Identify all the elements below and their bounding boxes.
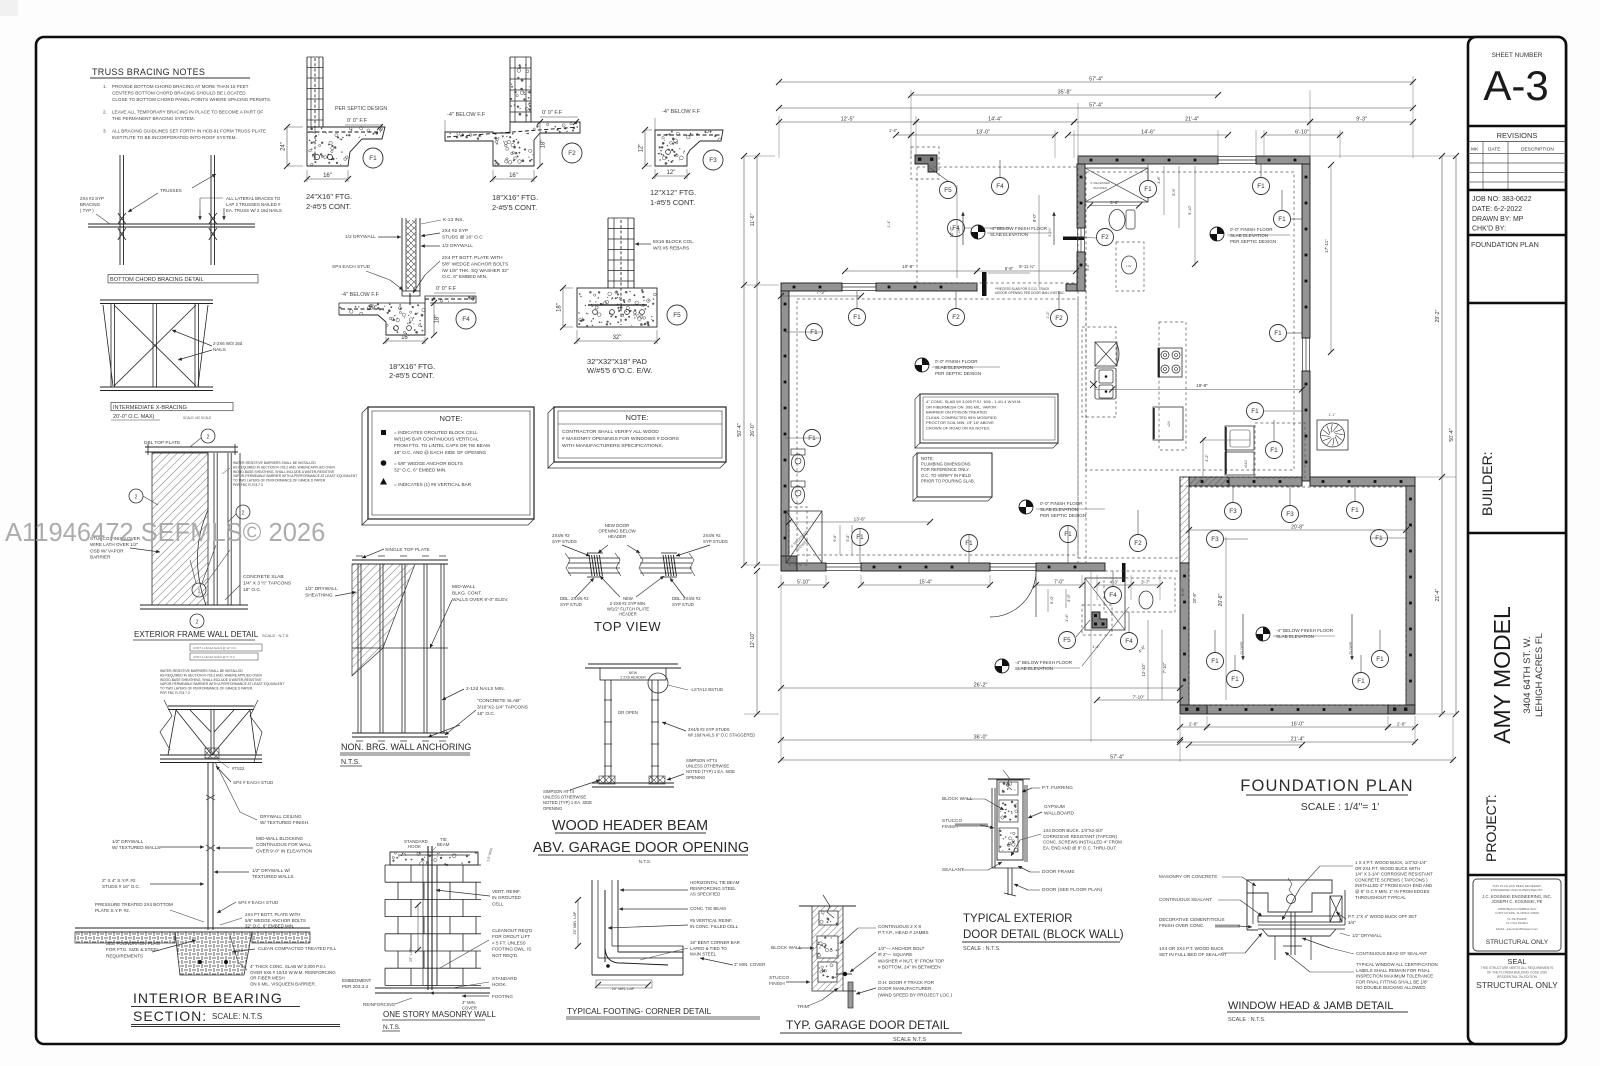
svg-text:F3: F3 — [1229, 508, 1237, 515]
svg-text:13'-8": 13'-8" — [854, 517, 866, 522]
svg-text:TRIM: TRIM — [797, 1004, 809, 1010]
svg-text:12'-10": 12'-10" — [750, 632, 756, 648]
plan dashed slab edges — [1086, 172, 1294, 470]
svg-text:48" O.C. AND @ EACH SIDE OF OP: 48" O.C. AND @ EACH SIDE OF OPENING — [394, 450, 486, 455]
svg-text:SLAB ELEVATION: SLAB ELEVATION — [1015, 666, 1053, 671]
svg-text:DRAWN BY: MP: DRAWN BY: MP — [1472, 216, 1524, 223]
svg-text:F4: F4 — [462, 316, 470, 323]
svg-text:2X4/6 #2: 2X4/6 #2 — [552, 533, 570, 538]
svg-text:3'-8": 3'-8" — [1157, 176, 1161, 184]
svg-text:MAIN STEEL: MAIN STEEL — [690, 952, 717, 957]
svg-text:CORROSIVE RESISTANT (TAPCON): CORROSIVE RESISTANT (TAPCON) — [1043, 834, 1117, 839]
svg-text:O.H. DOOR # TRACK FOR: O.H. DOOR # TRACK FOR — [878, 980, 935, 985]
svg-text:2X4/6 #2 SYP STUDS: 2X4/6 #2 SYP STUDS — [688, 727, 730, 732]
svg-text:21'-4": 21'-4" — [1435, 588, 1441, 601]
svg-text:3" MIN. COVER: 3" MIN. COVER — [734, 962, 765, 967]
svg-text:20'-8": 20'-8" — [1291, 525, 1304, 531]
svg-text:BRACING: BRACING — [80, 202, 101, 207]
svg-text:19'-8": 19'-8" — [1196, 383, 1208, 388]
svg-text:REINFORCING: REINFORCING — [363, 1002, 396, 1007]
svg-text:16" O.C.: 16" O.C. — [243, 587, 261, 593]
svg-text:32"X32"X18" PAD: 32"X32"X18" PAD — [587, 357, 648, 366]
svg-text:9'-6": 9'-6" — [833, 534, 837, 542]
svg-text:UNLESS OTHERWISE: UNLESS OTHERWISE — [686, 764, 729, 769]
svg-text:FOR FTG. SIZE & STEEL: FOR FTG. SIZE & STEEL — [106, 947, 160, 952]
svg-text:PER SEPTIC DESIGN: PER SEPTIC DESIGN — [1040, 513, 1086, 518]
svg-text:THROUGHOUT TYPICAL: THROUGHOUT TYPICAL — [1355, 895, 1406, 900]
svg-text:HORIZONTAL TIE BEAM: HORIZONTAL TIE BEAM — [690, 880, 740, 885]
footing detail F4 — [401, 218, 403, 291]
svg-text:DESCRIPTION: DESCRIPTION — [1521, 147, 1554, 153]
svg-text:CONTRACTOR SHALL VERIFY ALL WO: CONTRACTOR SHALL VERIFY ALL WOOD — [562, 429, 659, 435]
svg-text:SYP STUD: SYP STUD — [672, 602, 694, 607]
svg-text:P.T.Y.P., HEAD # JAMBS: P.T.Y.P., HEAD # JAMBS — [878, 930, 929, 935]
svg-text:SCALE: N.T.S: SCALE: N.T.S — [212, 1012, 262, 1021]
svg-text:2: 2 — [207, 435, 210, 441]
svg-text:5'-0": 5'-0" — [1180, 587, 1185, 596]
svg-text:EMAIL: jckosinski35(at)aol.com: EMAIL: jckosinski35(at)aol.com — [1496, 927, 1538, 931]
svg-text:THE PERMANENT BRACING SYSTEM.: THE PERMANENT BRACING SYSTEM. — [112, 116, 195, 121]
svg-text:SIMPSON HTT4: SIMPSON HTT4 — [543, 789, 575, 794]
svg-text:AS REQUIRED IN SECTION R-703.2: AS REQUIRED IN SECTION R-703.2 AND, WHER… — [160, 673, 262, 677]
svg-text:SP4 # EACH STUD: SP4 # EACH STUD — [238, 900, 279, 905]
svg-text:1/2" DRYWALL: 1/2" DRYWALL — [112, 839, 144, 844]
svg-text:50'-4": 50'-4" — [1449, 428, 1455, 441]
svg-text:FINISH OVER CONC.: FINISH OVER CONC. — [1159, 923, 1204, 928]
svg-text:OSB W/ VAPOR: OSB W/ VAPOR — [90, 548, 124, 553]
svg-text:-4" BELOW FINISH FLOOR: -4" BELOW FINISH FLOOR — [1276, 628, 1334, 633]
svg-text:CROWN OF ROAD OR AS NOTED.: CROWN OF ROAD OR AS NOTED. — [926, 426, 990, 431]
svg-text:4'-2": 4'-2" — [1205, 454, 1209, 462]
svg-text:16'-0": 16'-0" — [1291, 722, 1304, 728]
one story masonry wall — [390, 852, 478, 865]
svg-text:W/ 16d NAILS 6" O.C STAGGERED: W/ 16d NAILS 6" O.C STAGGERED — [688, 733, 755, 738]
svg-text:10'-8": 10'-8" — [902, 264, 914, 269]
svg-text:FOUNDATION PLAN: FOUNDATION PLAN — [1240, 777, 1414, 795]
svg-text:DBL. 2X4/6 #2: DBL. 2X4/6 #2 — [672, 596, 701, 601]
svg-text:4'-3": 4'-3" — [1110, 580, 1119, 585]
svg-text:O.C. 6" EMBED MIN.: O.C. 6" EMBED MIN. — [442, 274, 487, 280]
svg-text:1.: 1. — [103, 84, 107, 89]
svg-text:#5 VERTICAL REINF.: #5 VERTICAL REINF. — [690, 918, 732, 923]
svg-text:CHK'D BY:: CHK'D BY: — [1472, 226, 1506, 233]
svg-text:57'-4": 57'-4" — [1089, 77, 1103, 83]
svg-text:1’-1": 1’-1" — [1328, 413, 1336, 417]
svg-text:50'-4": 50'-4" — [737, 423, 743, 436]
svg-text:26'-2": 26'-2" — [974, 683, 988, 689]
plan bottom dimension lines — [781, 584, 826, 586]
svg-text:57'-4": 57'-4" — [1110, 755, 1124, 761]
svg-text:SCALE N.T.S: SCALE N.T.S — [893, 1037, 926, 1043]
svg-text:F2: F2 — [952, 314, 960, 321]
svg-text:NOTED (TYP) 1 EA. SIDE: NOTED (TYP) 1 EA. SIDE — [543, 800, 592, 805]
svg-text:SYP STUD: SYP STUD — [560, 602, 582, 607]
svg-text:NEW: NEW — [629, 671, 638, 675]
svg-text:TEXTURED WALLS.: TEXTURED WALLS. — [252, 874, 295, 879]
svg-text:SLAB ELEVATION: SLAB ELEVATION — [1230, 233, 1268, 238]
svg-text:WALLS OVER 9'-0" ELEV.: WALLS OVER 9'-0" ELEV. — [452, 597, 508, 603]
svg-text:STUDS # 16" O.C.: STUDS # 16" O.C. — [102, 884, 140, 889]
conc slab note box — [915, 394, 920, 448]
svg-text:CONTINUOUS 2 X 8: CONTINUOUS 2 X 8 — [878, 924, 921, 929]
svg-text:LAV: LAV — [1126, 264, 1131, 268]
svg-text:1'-4": 1'-4" — [887, 220, 891, 228]
note box 2 — [548, 407, 554, 468]
svg-text:CLOSE TO BOTTOM CHORD PANEL PO: CLOSE TO BOTTOM CHORD PANEL POINTS WHERE… — [112, 97, 271, 102]
svg-text:F4: F4 — [996, 183, 1004, 190]
svg-text:P.T. 1"X 4" WOOD BUCK OFF SET: P.T. 1"X 4" WOOD BUCK OFF SET — [1348, 914, 1417, 919]
svg-text:-LSTA12 BSTUD: -LSTA12 BSTUD — [690, 687, 723, 692]
svg-text:1X4 DOOR BUCK. 1/4"X2-3/4": 1X4 DOOR BUCK. 1/4"X2-3/4" — [1043, 828, 1104, 833]
svg-text:PROVIDE BOTTOM CHORD BRACING A: PROVIDE BOTTOM CHORD BRACING AT MORE THA… — [112, 84, 249, 89]
svg-text:NOTE:: NOTE: — [626, 413, 649, 422]
svg-text:GYPSUM: GYPSUM — [1044, 804, 1065, 810]
svg-text:1X4 OR 2X4 P.T. WOOD BUCK: 1X4 OR 2X4 P.T. WOOD BUCK — [1159, 946, 1224, 951]
svg-text:BUILDER:: BUILDER: — [1479, 451, 1495, 516]
svg-text:HEADER: HEADER — [619, 612, 636, 617]
svg-text:F4: F4 — [1109, 592, 1117, 599]
svg-text:F1: F1 — [1251, 408, 1259, 415]
svg-text:STRUCTURAL ONLY: STRUCTURAL ONLY — [1486, 939, 1549, 946]
svg-text:2X4 #2 SYP: 2X4 #2 SYP — [80, 196, 104, 201]
svg-text:CONTINUOUS BEAD OF SEALANT: CONTINUOUS BEAD OF SEALANT — [1356, 951, 1428, 956]
svg-text:INTERMEDIATE X-BRACING: INTERMEDIATE X-BRACING — [113, 405, 187, 411]
svg-text:W/#5'5 6"O.C. E/W.: W/#5'5 6"O.C. E/W. — [587, 366, 652, 375]
svg-text:F1: F1 — [1274, 330, 1282, 337]
svg-text:OR FIBER MESH: OR FIBER MESH — [250, 976, 285, 981]
svg-text:HEADER: HEADER — [608, 534, 626, 539]
svg-text:MID-WALL: MID-WALL — [452, 584, 476, 590]
svg-text:"CONCRETE SLAB": "CONCRETE SLAB" — [477, 698, 521, 704]
svg-text:AMY MODEL: AMY MODEL — [1489, 606, 1515, 744]
svg-text:16": 16" — [323, 173, 332, 179]
svg-text:TYPICAL EXTERIOR: TYPICAL EXTERIOR — [963, 913, 1073, 925]
svg-text:1'-4": 1'-4" — [889, 128, 898, 133]
svg-text:FL COA #34464: FL COA #34464 — [1506, 921, 1528, 925]
svg-text:5'-8": 5'-8" — [846, 534, 850, 542]
svg-text:0' 0" F.F: 0' 0" F.F — [542, 110, 563, 116]
svg-text:F5: F5 — [1063, 637, 1071, 644]
svg-text:WITH MANUFACTURERS SPECIFICATI: WITH MANUFACTURERS SPECIFICATIONS. — [562, 443, 663, 449]
svg-text:0'-0" FINISH FLOOR: 0'-0" FINISH FLOOR — [1040, 501, 1083, 506]
svg-text:W/(1)#5 BAR CONTINUOUS VERTICA: W/(1)#5 BAR CONTINUOUS VERTICAL — [394, 437, 479, 442]
svg-text:PER 203.3.3: PER 203.3.3 — [342, 984, 368, 989]
svg-text:WASHER # NUT, 8" FROM TOP: WASHER # NUT, 8" FROM TOP — [878, 958, 944, 963]
svg-text:PRIOR TO POURING SLAB.: PRIOR TO POURING SLAB. — [921, 478, 975, 483]
svg-text:PER SEPTIC DESIGN: PER SEPTIC DESIGN — [1230, 239, 1276, 244]
svg-text:5'-8": 5'-8" — [1005, 266, 1014, 271]
svg-text:SEAL: SEAL — [1507, 957, 1526, 966]
svg-text:F2: F2 — [1101, 234, 1109, 241]
svg-text:F3: F3 — [1286, 511, 1294, 518]
svg-text:NON. BRG. WALL ANCHORING: NON. BRG. WALL ANCHORING — [341, 742, 471, 752]
svg-text:FORT MYERS, FLORIDA 33908: FORT MYERS, FLORIDA 33908 — [1495, 911, 1539, 915]
svg-text:MASONRY OR CONCRETE: MASONRY OR CONCRETE — [1159, 874, 1217, 879]
svg-text:OR FIBERMESH ON .006 MIL. VAP: OR FIBERMESH ON .006 MIL. VAPOR — [926, 404, 996, 409]
svg-text:W/ TEXTURED FINISH.: W/ TEXTURED FINISH. — [260, 820, 309, 825]
svg-text:OR 2X4 P.T. WOOD BUCK WITH: OR 2X4 P.T. WOOD BUCK WITH — [1355, 866, 1420, 871]
svg-text:F1: F1 — [369, 155, 377, 162]
svg-text:3" MIN.: 3" MIN. — [462, 1000, 476, 1005]
svg-text:5'-8": 5'-8" — [1110, 200, 1119, 205]
svg-text:2X4 #2 SYP: 2X4 #2 SYP — [442, 228, 468, 234]
svg-text:F1: F1 — [1211, 658, 1219, 665]
svg-text:SYP STUDS: SYP STUDS — [552, 539, 577, 544]
svg-text:3'-0⅝": 3'-0⅝" — [1048, 226, 1052, 236]
svg-text:F4: F4 — [1125, 638, 1133, 645]
svg-text:5/8" WEDGE ANCHOR BOLTS: 5/8" WEDGE ANCHOR BOLTS — [442, 261, 508, 267]
svg-text:SCALE : 1/4"= 1': SCALE : 1/4"= 1' — [1301, 801, 1379, 813]
svg-text:F1: F1 — [1376, 656, 1384, 663]
svg-text:9'-3": 9'-3" — [1356, 117, 1367, 123]
typ. garage door detail — [799, 905, 856, 907]
svg-text:AS SPECIFIED: AS SPECIFIED — [690, 892, 720, 897]
svg-text:F1: F1 — [1351, 507, 1359, 514]
svg-text:SCALE : N.T.S.: SCALE : N.T.S. — [262, 633, 289, 638]
svg-text:36'-0": 36'-0" — [974, 735, 988, 741]
svg-text:PLATE S.Y.P. #2.: PLATE S.Y.P. #2. — [95, 908, 130, 913]
svg-text:24": 24" — [281, 142, 287, 151]
svg-text:ABV. GARAGE DOOR OPENING: ABV. GARAGE DOOR OPENING — [533, 840, 749, 856]
svg-text:SCALE: NO SCALE: SCALE: NO SCALE — [183, 416, 211, 420]
svg-text:1/4" X 3-1/4" CORROSIVE RESIST: 1/4" X 3-1/4" CORROSIVE RESISTANT — [1355, 872, 1433, 877]
svg-text:PRESSURE TREATED 2X4 BOTTOM: PRESSURE TREATED 2X4 BOTTOM — [95, 902, 173, 907]
svg-text:JOSEPH C. KOSINSKI, PE: JOSEPH C. KOSINSKI, PE — [1492, 899, 1543, 904]
entry corner column — [1092, 612, 1107, 628]
svg-text:N.T.S.: N.T.S. — [383, 1024, 401, 1031]
svg-text:STUCCO: STUCCO — [942, 818, 963, 824]
svg-text:> 5 FT. UNLESS: > 5 FT. UNLESS — [492, 940, 526, 945]
typical exterior door detail — [988, 778, 1030, 780]
svg-text:1/2 DRYWALL: 1/2 DRYWALL — [345, 234, 376, 240]
svg-text:1: 1 — [198, 589, 201, 595]
svg-text:NOTE:: NOTE: — [440, 414, 463, 423]
svg-text:0'-0" FINISH FLOOR: 0'-0" FINISH FLOOR — [935, 359, 978, 364]
svg-text:F1: F1 — [1144, 186, 1152, 193]
svg-text:7'-0": 7'-0" — [1054, 580, 1064, 586]
svg-text:25" MIN. LAP: 25" MIN. LAP — [612, 987, 635, 991]
footing detail F1 — [306, 57, 308, 127]
svg-text:CLEAN COMPACTED TREATED FILL: CLEAN COMPACTED TREATED FILL — [258, 946, 337, 951]
svg-text:1/4" X 3 ½" TAPCONS: 1/4" X 3 ½" TAPCONS — [243, 580, 291, 587]
svg-text:18": 18" — [541, 140, 547, 149]
svg-text:EA. END AND @ 8" O.C. THRU-OUT: EA. END AND @ 8" O.C. THRU-OUT. — [1043, 845, 1117, 850]
svg-text:20'-0" O.C. MAX): 20'-0" O.C. MAX) — [113, 414, 154, 420]
svg-text:K-13 INS.: K-13 INS. — [443, 217, 464, 223]
svg-text:12"X12" FTG.: 12"X12" FTG. — [650, 188, 696, 197]
svg-text:FOR FINAL FITTING SHALL BE 1/: FOR FINAL FITTING SHALL BE 1/8" — [1356, 979, 1428, 984]
svg-text:LABELS SHALL REMAIN FOR FINAL: LABELS SHALL REMAIN FOR FINAL — [1356, 968, 1431, 973]
svg-text:2-#5'5 CONT.: 2-#5'5 CONT. — [389, 371, 434, 380]
svg-text:TOP VIEW: TOP VIEW — [594, 619, 661, 634]
svg-text:INSTITUTE TO BE INCORPORATED I: INSTITUTE TO BE INCORPORATED INTO ROOF S… — [112, 135, 237, 140]
svg-text:W/3 #5 REBARS: W/3 #5 REBARS — [653, 245, 689, 251]
svg-text:2.: 2. — [103, 109, 107, 114]
svg-text:AS REQUIRED IN SECTION R-703.2: AS REQUIRED IN SECTION R-703.2 AND, WHER… — [233, 465, 335, 469]
svg-text:18": 18" — [557, 303, 563, 312]
svg-text:57'-4": 57'-4" — [1089, 103, 1103, 109]
svg-text:VERT. REINF.: VERT. REINF. — [492, 889, 521, 894]
footing detail F5 — [607, 218, 609, 288]
svg-text:= INDICATES GROUTED BLOCK CELL: = INDICATES GROUTED BLOCK CELL — [394, 430, 478, 435]
svg-text:#TS22: #TS22 — [232, 766, 245, 771]
svg-text:DOOR MANUFACTURER.: DOOR MANUFACTURER. — [878, 986, 933, 991]
svg-text:DR OPEN: DR OPEN — [618, 710, 638, 715]
plan bullseyes and notes — [971, 225, 985, 239]
svg-text:0'-0" FINISH FLOOR: 0'-0" FINISH FLOOR — [1230, 227, 1273, 232]
svg-text:15'-4": 15'-4" — [919, 580, 932, 586]
svg-text:BARRIER ON POISON TREATED: BARRIER ON POISON TREATED — [926, 410, 987, 415]
svg-text:WOOD-BASE SHEATHING, SHALL INC: WOOD-BASE SHEATHING, SHALL INCLUDE A WAT… — [233, 470, 335, 474]
svg-text:12'-10": 12'-10" — [1141, 663, 1146, 677]
svg-text:SHEET NUMBER: SHEET NUMBER — [1492, 52, 1543, 59]
svg-text:REINFORCING STEEL: REINFORCING STEEL — [690, 886, 736, 891]
svg-text:CONC. SCREWS INSTALLED 4" FROM: CONC. SCREWS INSTALLED 4" FROM — [1043, 840, 1122, 845]
svg-text:NOT REQ'D.: NOT REQ'D. — [492, 953, 518, 958]
svg-text:WINDOW HEAD & JAMB DETAIL: WINDOW HEAD & JAMB DETAIL — [1228, 1000, 1393, 1012]
svg-text:F1: F1 — [1357, 678, 1365, 685]
svg-text:SCALE : N.T.S.: SCALE : N.T.S. — [963, 946, 1001, 952]
svg-text:OPENING: OPENING — [686, 775, 705, 780]
svg-text:VAPOR-PERMEABLE BARRIER WITH A: VAPOR-PERMEABLE BARRIER WITH A PERFORMAN… — [233, 474, 357, 478]
svg-text:3'-7": 3'-7" — [1141, 580, 1150, 585]
svg-text:W/ TEXTURED WALLS.: W/ TEXTURED WALLS. — [112, 845, 162, 850]
svg-text:32" O.C. 6" EMBED MIN.: 32" O.C. 6" EMBED MIN. — [245, 924, 294, 929]
svg-text:TYP. GARAGE DOOR DETAIL: TYP. GARAGE DOOR DETAIL — [786, 1018, 950, 1032]
svg-text:25" MIN. LAP: 25" MIN. LAP — [573, 911, 577, 934]
svg-text:/W 1/8" THK. SQ WASHER 32": /W 1/8" THK. SQ WASHER 32" — [442, 268, 509, 274]
svg-text:NOTED (TYP) 1 EA. SIDE: NOTED (TYP) 1 EA. SIDE — [686, 769, 735, 774]
svg-text:CELL: CELL — [492, 901, 504, 906]
svg-text:PER SEPTIC DESIGN: PER SEPTIC DESIGN — [935, 371, 981, 376]
svg-text:-4" BELOW FINISH FLOOR: -4" BELOW FINISH FLOOR — [1015, 660, 1073, 665]
svg-text:STANDARD: STANDARD — [492, 976, 518, 981]
svg-text:CONC. TIE BEAM: CONC. TIE BEAM — [690, 906, 726, 911]
svg-text:TYPICAL WINDOW ALL CERTIFICATI: TYPICAL WINDOW ALL CERTIFICATION — [1356, 962, 1438, 967]
svg-text:7'-10": 7'-10" — [1133, 695, 1145, 700]
svg-text:1'-4": 1'-4" — [1064, 613, 1069, 622]
svg-text:CONCRETE SLAB: CONCRETE SLAB — [243, 574, 284, 580]
svg-text:SET IN FULL BED OF SEALANT: SET IN FULL BED OF SEALANT — [1159, 952, 1227, 957]
svg-text:SINGLE TOP PLATE: SINGLE TOP PLATE — [385, 547, 430, 553]
svg-text:-4" BELOW F.F: -4" BELOW F.F — [447, 112, 486, 118]
svg-text:IN GROUTED: IN GROUTED — [492, 895, 522, 900]
svg-text:TRUSSES: TRUSSES — [160, 188, 182, 193]
svg-text:A-3: A-3 — [1483, 62, 1548, 109]
svg-text:16": 16" — [509, 173, 518, 179]
svg-text:SHOWER: SHOWER — [1093, 186, 1107, 190]
svg-text:2-#5'5 CONT.: 2-#5'5 CONT. — [306, 202, 351, 211]
svg-text:F5: F5 — [944, 187, 952, 194]
svg-text:DBL. 2X4/6 #2: DBL. 2X4/6 #2 — [560, 596, 589, 601]
svg-text:JOIST 1-16d EA NAILS @ 12" O.C: JOIST 1-16d EA NAILS @ 12" O.C. — [193, 646, 237, 650]
svg-text:OPENING BELOW: OPENING BELOW — [598, 529, 636, 534]
svg-text:1/2" DRYWALL: 1/2" DRYWALL — [305, 586, 338, 592]
svg-text:NAILS: NAILS — [213, 347, 226, 352]
svg-text:STUDS @ 16" O.C: STUDS @ 16" O.C — [442, 234, 483, 240]
svg-text:STUCCO: STUCCO — [769, 975, 790, 981]
svg-text:F1: F1 — [853, 314, 861, 321]
svg-text:REQUIREMENTS: REQUIREMENTS — [106, 953, 143, 958]
svg-text:3.: 3. — [103, 128, 107, 133]
svg-text:SP4 # EACH STUD: SP4 # EACH STUD — [233, 780, 274, 785]
svg-text:16" BENT CORNER BAR: 16" BENT CORNER BAR — [690, 940, 740, 945]
svg-text:DBL TOP PLATE: DBL TOP PLATE — [144, 440, 180, 446]
svg-text:32" O.C. 6" EMBED MIN.: 32" O.C. 6" EMBED MIN. — [394, 468, 447, 473]
svg-text:2: 2 — [135, 495, 138, 501]
svg-text:18": 18" — [435, 315, 441, 324]
svg-text:IN CONC. FILLED CELL: IN CONC. FILLED CELL — [690, 924, 739, 929]
plan left dimension lines — [743, 156, 745, 565]
svg-text:DECORATIVE CEMENTITIOUS: DECORATIVE CEMENTITIOUS — [1159, 917, 1225, 922]
svg-text:HOOK: HOOK — [408, 844, 421, 849]
svg-text:PROCTOR SOIL MIN. OF 18" ABO: PROCTOR SOIL MIN. OF 18" ABOVE — [926, 420, 994, 425]
svg-text:5'-10": 5'-10" — [797, 580, 810, 586]
svg-text:SCALE : N.T.S.: SCALE : N.T.S. — [1228, 1017, 1266, 1023]
svg-text:F3: F3 — [1211, 536, 1219, 543]
svg-text:5'-0": 5'-0" — [1049, 595, 1054, 604]
svg-text:2" X 4" S.Y.P. #2: 2" X 4" S.Y.P. #2 — [102, 878, 136, 883]
svg-text:2 2X8 HEADER: 2 2X8 HEADER — [620, 676, 646, 680]
svg-text:N.T.S.: N.T.S. — [639, 859, 651, 864]
svg-text:F1: F1 — [1231, 676, 1239, 683]
svg-text:3'-0⅝": 3'-0⅝" — [957, 226, 961, 236]
svg-text:1/2 DRYWALL: 1/2 DRYWALL — [442, 243, 473, 249]
svg-text:2-#5'5 CONT.: 2-#5'5 CONT. — [492, 203, 537, 212]
bottom chord bracing detail — [119, 155, 121, 265]
svg-text:CENTERS BOTTOM CHORD BRACING S: CENTERS BOTTOM CHORD BRACING SHOULD BE L… — [112, 90, 246, 95]
svg-text:CLEAN. COMPACTED 95% MODIFIED: CLEAN. COMPACTED 95% MODIFIED — [926, 415, 997, 420]
svg-text:BEAM: BEAM — [437, 842, 450, 847]
svg-text:1'-2": 1'-2" — [1046, 311, 1050, 319]
svg-text:# BOTTOM, 24" IN BETWEEN: # BOTTOM, 24" IN BETWEEN — [878, 965, 941, 970]
svg-text:RESIDENTIAL 7th EDITION: RESIDENTIAL 7th EDITION — [1497, 975, 1538, 979]
svg-text:SEALANT: SEALANT — [942, 867, 964, 873]
svg-text:F3: F3 — [709, 157, 717, 164]
svg-text:5'-9": 5'-9" — [1172, 188, 1176, 196]
svg-text:UNLESS OTHERWISE: UNLESS OTHERWISE — [543, 795, 586, 800]
svg-text:P.T. FURRING: P.T. FURRING — [1042, 785, 1073, 791]
svg-text:WOOD-BASE SHEATHING, SHALL INC: WOOD-BASE SHEATHING, SHALL INCLUDE A WAT… — [160, 678, 262, 682]
svg-text:20'-8": 20'-8" — [1192, 592, 1197, 603]
svg-text:2'-8": 2'-8" — [1397, 722, 1407, 727]
svg-text:PLUMBING DIMENSIONS: PLUMBING DIMENSIONS — [921, 462, 971, 467]
plumbing note box — [913, 453, 917, 501]
svg-text:16" O.C.: 16" O.C. — [477, 711, 495, 717]
svg-text:3/16"X2-1/4" TAPCONS: 3/16"X2-1/4" TAPCONS — [477, 704, 528, 710]
svg-text:CONCRETE SCREWS ( TAPCONS ): CONCRETE SCREWS ( TAPCONS ) — [1355, 877, 1428, 882]
svg-text:= 5/8" WEDGE ANCHOR BOLTS: = 5/8" WEDGE ANCHOR BOLTS — [394, 461, 463, 466]
svg-text:F2: F2 — [1055, 315, 1063, 322]
svg-text:DOOR DETAIL (BLOCK WALL): DOOR DETAIL (BLOCK WALL) — [963, 929, 1124, 941]
svg-text:8'-11 ¼": 8'-11 ¼" — [1019, 264, 1035, 269]
svg-text:EXTERIOR FRAME WALL DETAIL: EXTERIOR FRAME WALL DETAIL — [134, 630, 259, 639]
svg-text:F1: F1 — [1270, 447, 1278, 454]
svg-text:F1: F1 — [1375, 535, 1383, 542]
svg-text:ONE STORY MASONRY WALL: ONE STORY MASONRY WALL — [383, 1010, 496, 1019]
svg-text:4" RECESSED: 4" RECESSED — [1090, 181, 1111, 185]
svg-text:G.C. TO VERIFY IN FIELD: G.C. TO VERIFY IN FIELD — [921, 473, 971, 478]
svg-text:29'-2": 29'-2" — [1435, 309, 1441, 322]
svg-text:ENGINEERED AND SUPERVISED BY:: ENGINEERED AND SUPERVISED BY: — [1491, 888, 1544, 892]
svg-text:TO TWO LAYERS OF PERFORMANCE: TO TWO LAYERS OF PERFORMANCE OF GRADE D … — [233, 479, 326, 483]
svg-text:FINISH: FINISH — [769, 981, 785, 987]
svg-text:2: 2 — [196, 620, 199, 626]
svg-text:1/2" DRYWALL: 1/2" DRYWALL — [1352, 933, 1382, 938]
svg-text:18"X16" FTG.: 18"X16" FTG. — [389, 362, 435, 371]
svg-text:WATER-RESISTIVE BARRIERS SHALL: WATER-RESISTIVE BARRIERS SHALL BE INSTAL… — [160, 669, 243, 673]
svg-text:OF THE FLORIDA BUILDING CODE: OF THE FLORIDA BUILDING CODE 2020 — [1487, 971, 1547, 975]
